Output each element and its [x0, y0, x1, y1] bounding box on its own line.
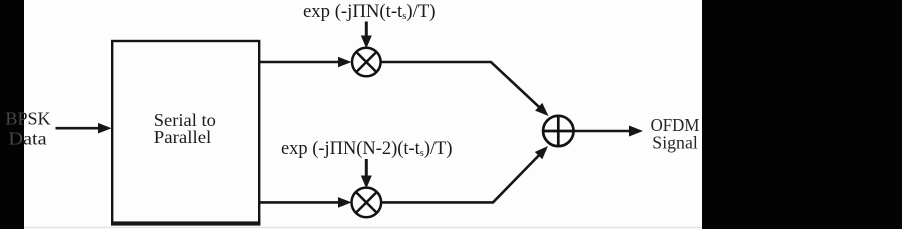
arrowhead into Serial-to-Parallel box — [98, 123, 112, 134]
wire: adder output — [574, 130, 632, 133]
svg-text:Signal: Signal — [652, 133, 698, 153]
multiplier (mixer) top — [352, 48, 381, 77]
label: OFDM Signal — [651, 115, 700, 153]
wire: vertical arrow from lower exp label — [365, 159, 368, 178]
svg-text:exp (-jΠN(t-ts)/T): exp (-jΠN(t-ts)/T) — [303, 2, 436, 22]
wire: top multiplier to adder (horizontal + diagonal) — [381, 62, 545, 112]
wire: BPSK input line — [56, 127, 102, 130]
label: Serial to Parallel — [154, 110, 216, 147]
wire: box to bottom multiplier — [259, 201, 340, 204]
wire: box to top multiplier — [259, 61, 340, 64]
adder (summer) — [543, 116, 573, 146]
arrowhead into top multiplier (vertical) — [361, 36, 372, 49]
arrowhead into bottom multiplier (vertical) — [361, 176, 372, 189]
arrowhead into adder upper-left — [535, 103, 548, 116]
arrowhead into bottom multiplier — [338, 197, 352, 208]
wire: bottom multiplier to adder (horizontal + diagonal) — [381, 150, 544, 202]
arrowhead into top multiplier — [338, 57, 352, 68]
left black border bar — [0, 0, 24, 229]
arrowhead into adder lower-left — [535, 146, 548, 159]
arrowhead output — [629, 126, 643, 137]
faint scan line — [24, 227, 702, 229]
right black region — [702, 0, 902, 229]
svg-text:exp (-jΠN(N-2)(t-ts)/T): exp (-jΠN(N-2)(t-ts)/T) — [281, 139, 452, 159]
svg-text:Parallel: Parallel — [154, 127, 212, 147]
wire: vertical arrow from top exp label — [365, 22, 368, 39]
multiplier (mixer) bottom — [352, 188, 382, 218]
block: Serial to Parallel box — [111, 41, 260, 226]
